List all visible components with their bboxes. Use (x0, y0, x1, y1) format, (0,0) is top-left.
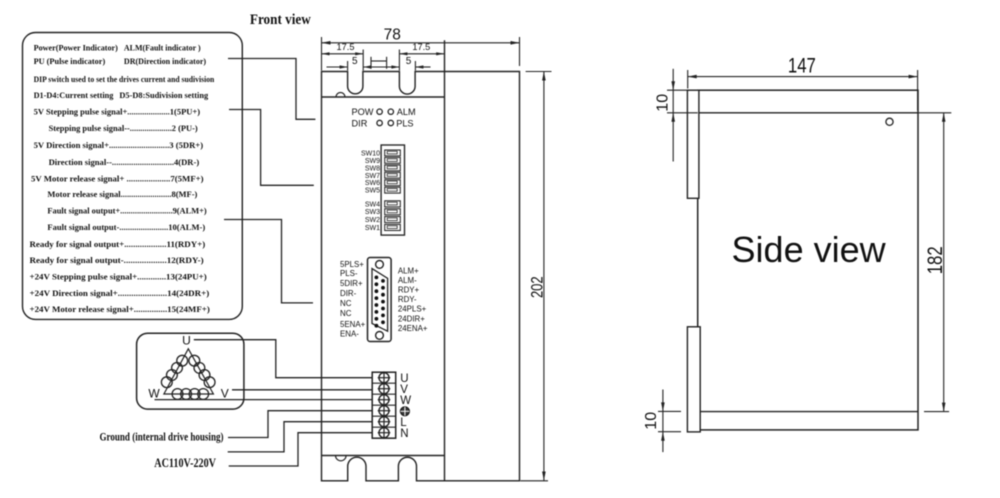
side view screw hole (886, 118, 893, 125)
svg-text:5V Stepping pulse signal+.....: 5V Stepping pulse signal+...............… (34, 108, 201, 117)
motor winding box (137, 333, 244, 409)
leader line A (indicators to LED area) (228, 59, 315, 120)
svg-text:17.5: 17.5 (412, 42, 430, 52)
coil right 3 (199, 370, 210, 381)
leader line C (signal output rows to DB15 connector area) (224, 220, 313, 303)
dimension 182 (918, 113, 952, 412)
dimension 10 bottom (643, 390, 681, 453)
info box (23, 33, 243, 320)
svg-text:5ENA+: 5ENA+ (340, 320, 366, 329)
side view top tab (687, 90, 699, 198)
DIP switch SW8 (385, 165, 401, 171)
drive face right edge (444, 40, 446, 481)
svg-text:5DIR+: 5DIR+ (340, 279, 363, 288)
svg-text:RDY+: RDY+ (398, 286, 420, 295)
bottom small hole (336, 456, 347, 461)
terminal labels U V W L N (400, 373, 411, 440)
svg-text:SW4: SW4 (365, 201, 380, 208)
wire U (194, 340, 372, 378)
svg-text:ENA-: ENA- (340, 330, 359, 339)
DIP switch SW9 (385, 157, 401, 163)
svg-text:D1-D4:Current setting: D1-D4:Current setting (34, 91, 115, 100)
svg-text:W: W (400, 395, 411, 407)
svg-text:Fault signal output-..........: Fault signal output-....................… (47, 223, 205, 232)
svg-text:SW5: SW5 (365, 188, 380, 195)
wire N (229, 433, 373, 466)
svg-text:DIP switch used to set the dri: DIP switch used to set the drives curren… (34, 75, 215, 84)
LED ALM (388, 109, 393, 114)
DB15 pin left 8 (375, 324, 379, 328)
terminal screw 2 (379, 384, 389, 394)
coil right 1 (189, 355, 200, 366)
svg-text:10: 10 (643, 412, 660, 430)
svg-text:Direction signal--............: Direction signal--......................… (49, 158, 200, 167)
coil right 4 (204, 377, 215, 388)
svg-text:5: 5 (352, 56, 358, 67)
svg-text:PLS-: PLS- (340, 269, 358, 278)
dimension 17.5 right (399, 42, 444, 55)
motor triangle (164, 349, 214, 394)
coil bottom 1 (172, 389, 183, 400)
svg-text:W: W (148, 387, 160, 401)
terminal divider 1 (372, 382, 396, 384)
drive face bottom line (322, 455, 445, 457)
svg-text:10: 10 (655, 94, 672, 112)
svg-text:147: 147 (788, 55, 816, 78)
drive face top line (322, 96, 445, 98)
wire L (228, 422, 373, 452)
svg-text:SW7: SW7 (365, 173, 380, 180)
LED DIR (377, 120, 382, 125)
DB15 pin left 2 (375, 282, 379, 286)
DB15 pin right 6 (381, 314, 385, 318)
svg-text:24ENA+: 24ENA+ (398, 324, 428, 333)
DIP switch SW3 (385, 209, 401, 215)
svg-text:Front view: Front view (250, 13, 311, 29)
svg-text:SW10: SW10 (361, 150, 380, 157)
dimension 5 right slot (399, 50, 430, 71)
terminal screw 6 (379, 428, 389, 438)
DB15 pin right 7 (381, 320, 385, 324)
svg-text:+24V Stepping pulse signal+...: +24V Stepping pulse signal+.............… (30, 272, 207, 281)
svg-text:SW9: SW9 (365, 158, 380, 165)
svg-text:5V Direction signal+..........: 5V Direction signal+....................… (34, 141, 204, 150)
svg-text:Power(Power Indicator): Power(Power Indicator) (34, 43, 119, 52)
DB15 pin left 6 (375, 310, 379, 314)
DB15 pin left 1 (375, 276, 379, 280)
svg-text:N: N (400, 428, 408, 440)
wire V (232, 389, 372, 391)
DB15 pin left 4 (375, 296, 379, 300)
svg-text:78: 78 (384, 26, 401, 43)
coil bottom 2 (181, 389, 192, 400)
svg-text:+24V Direction signal+........: +24V Direction signal+..................… (30, 289, 210, 298)
coil left 2 (172, 363, 183, 374)
DB15 pin right 4 (381, 300, 385, 304)
terminal divider 3 (372, 404, 396, 406)
terminal divider 2 (372, 393, 396, 395)
svg-text:Motor release signal..........: Motor release signal....................… (47, 190, 197, 199)
DIP switch SW6 (385, 180, 401, 186)
svg-text:ALM+: ALM+ (398, 267, 419, 276)
svg-text:SW3: SW3 (365, 209, 380, 216)
DB15 pin right 1 (381, 279, 385, 283)
svg-text:5V Motor release signal+ .....: 5V Motor release signal+ ...............… (31, 174, 204, 183)
dimension 10 top (655, 69, 698, 162)
svg-text:ALM-: ALM- (398, 276, 417, 285)
LED labels POW ALM (352, 107, 416, 128)
svg-text:+24V Motor release signal+....: +24V Motor release signal+..............… (30, 305, 211, 314)
side view flange top line (698, 112, 918, 114)
svg-text:ALM(Fault indicator ): ALM(Fault indicator ) (124, 43, 201, 52)
svg-text:NC: NC (340, 309, 352, 318)
dimension 17.5 left (322, 42, 364, 55)
DB15 screw hole top (376, 261, 384, 269)
svg-text:PU (Pulse indicator): PU (Pulse indicator) (34, 57, 106, 66)
top small hole (336, 93, 345, 98)
wire W (155, 399, 373, 401)
svg-text:PLS: PLS (396, 119, 413, 129)
coil left 1 (177, 355, 188, 366)
DIP switch SW4 (385, 201, 401, 207)
dimension 5 left slot (327, 50, 364, 71)
svg-text:Ready for signal output+......: Ready for signal output+................… (30, 240, 206, 249)
svg-text:5: 5 (406, 56, 412, 67)
coil right 2 (194, 363, 205, 374)
terminal screw 4 (379, 406, 389, 416)
svg-text:Fault signal output+..........: Fault signal output+....................… (47, 207, 207, 216)
terminal divider 5 (372, 426, 396, 428)
svg-text:D5-D8:Sudivision setting: D5-D8:Sudivision setting (119, 91, 209, 100)
coil bottom 4 (198, 389, 209, 400)
LED POW (377, 109, 382, 114)
DB15 connector U1 body (368, 258, 392, 342)
DB15 pin right 3 (381, 293, 385, 297)
DB15 pin left 7 (375, 317, 379, 321)
coil left 3 (167, 370, 178, 381)
DB15 pin right 2 (381, 286, 385, 290)
svg-text:182: 182 (924, 246, 947, 274)
svg-text:DIR-: DIR- (340, 289, 357, 298)
DIP switch SW10 (385, 150, 401, 156)
dimension 78 (322, 26, 520, 70)
svg-text:RDY-: RDY- (398, 295, 417, 304)
dimension 147 (688, 55, 918, 111)
svg-text:SW1: SW1 (365, 225, 380, 232)
side view bottom tab (687, 327, 700, 432)
svg-text:NC: NC (340, 299, 352, 308)
drive front outline with mounting slots and notches (322, 72, 520, 481)
svg-text:V: V (221, 387, 229, 401)
svg-text:Ready for signal output-......: Ready for signal output-................… (30, 256, 204, 265)
DIP switch SW7 (385, 172, 401, 178)
svg-text:DR(Direction indicator): DR(Direction indicator) (124, 57, 206, 66)
DB15 pin left 3 (375, 289, 379, 293)
terminal screw 3 (379, 395, 389, 405)
svg-text:ALM: ALM (397, 107, 416, 117)
info box text rows (30, 43, 215, 314)
svg-text:AC110V-220V: AC110V-220V (154, 457, 216, 470)
DIP switch outer box (381, 145, 404, 235)
DIP switch SW1 (385, 224, 401, 230)
coil bottom 3 (189, 389, 200, 400)
svg-text:24PLS+: 24PLS+ (398, 305, 427, 314)
svg-text:U: U (182, 334, 191, 348)
svg-text:Side view: Side view (732, 229, 887, 270)
DB15 screw hole bottom (376, 332, 384, 340)
svg-text:Ground (internal drive housing: Ground (internal drive housing) (100, 432, 224, 444)
svg-text:24DIR+: 24DIR+ (398, 314, 425, 323)
DB15 left pin labels (340, 260, 366, 339)
coil left 4 (161, 377, 172, 388)
svg-text:5PLS+: 5PLS+ (340, 260, 364, 269)
terminal ground symbol (400, 407, 409, 416)
LED PLS (388, 120, 393, 125)
svg-text:SW6: SW6 (365, 180, 380, 187)
terminal block outer (372, 372, 396, 438)
svg-text:Stepping pulse signal--.......: Stepping pulse signal--.................… (49, 124, 198, 133)
svg-text:17.5: 17.5 (337, 42, 355, 52)
DIP switch SW2 (385, 217, 401, 223)
terminal screw 1 (379, 373, 389, 383)
wire ground (228, 411, 372, 438)
DB15 pin left 5 (375, 303, 379, 307)
svg-text:POW: POW (352, 107, 374, 117)
dimension 202 (520, 72, 551, 481)
terminal screw 5 (379, 417, 389, 427)
DB15 D-shell (372, 269, 388, 332)
svg-text:DIR: DIR (352, 119, 368, 129)
side view flange bottom line (698, 411, 918, 413)
terminal divider 4 (372, 415, 396, 417)
svg-text:SW8: SW8 (365, 165, 380, 172)
svg-text:SW2: SW2 (365, 217, 380, 224)
center slot gap dimension (363, 57, 399, 69)
DB15 pin right 5 (381, 307, 385, 311)
leader line B (pulse signal rows to DIP switch area) (229, 110, 314, 186)
DB15 right pin labels (398, 267, 428, 333)
DIP switch SW5 (385, 187, 401, 193)
side view body (698, 90, 918, 430)
